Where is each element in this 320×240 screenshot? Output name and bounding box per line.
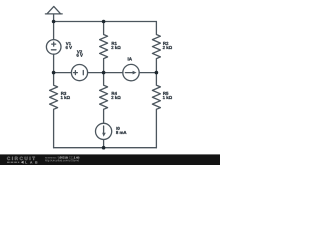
wire left column below V1 — [53, 54, 55, 72]
wire middle rail right segment — [139, 72, 156, 74]
CircuitLab logo — [7, 157, 37, 164]
label V2 6 V — [77, 50, 83, 56]
power flag supply symbol — [45, 6, 62, 21]
label R3 1 kOhm — [61, 92, 70, 99]
label ammeter IA — [128, 57, 132, 60]
current source I0 — [96, 123, 112, 147]
wire middle rail left segment — [54, 72, 72, 74]
watermark url text — [45, 156, 79, 161]
wire left column upper — [53, 22, 55, 40]
resistor R4 — [100, 73, 108, 124]
node mid-middle junction — [102, 71, 106, 75]
wire bottom rail — [54, 147, 157, 149]
watermark bottom bar — [0, 154, 220, 165]
label R2 2 kOhm — [163, 42, 172, 49]
resistor R5 — [152, 73, 160, 148]
label R1 2 kOhm — [111, 42, 120, 49]
voltage source V1 — [46, 40, 61, 55]
label R4 2 kOhm — [111, 92, 120, 99]
ammeter IA — [123, 64, 139, 80]
label I0 8 mA — [116, 127, 126, 134]
node mid-right junction — [155, 71, 159, 75]
resistor R2 — [152, 22, 160, 73]
node bottom-middle junction — [102, 146, 106, 150]
node mid-left junction — [52, 71, 56, 75]
wire top rail — [54, 21, 157, 23]
wire middle rail center segment — [88, 72, 123, 74]
node top-left junction — [52, 20, 56, 24]
label V1 6 V — [66, 42, 72, 49]
label R5 1 kOhm — [163, 92, 172, 99]
node top-middle junction — [102, 20, 106, 24]
resistor R1 — [100, 22, 108, 73]
resistor R3 — [50, 73, 58, 148]
voltage source V2 — [71, 65, 87, 81]
